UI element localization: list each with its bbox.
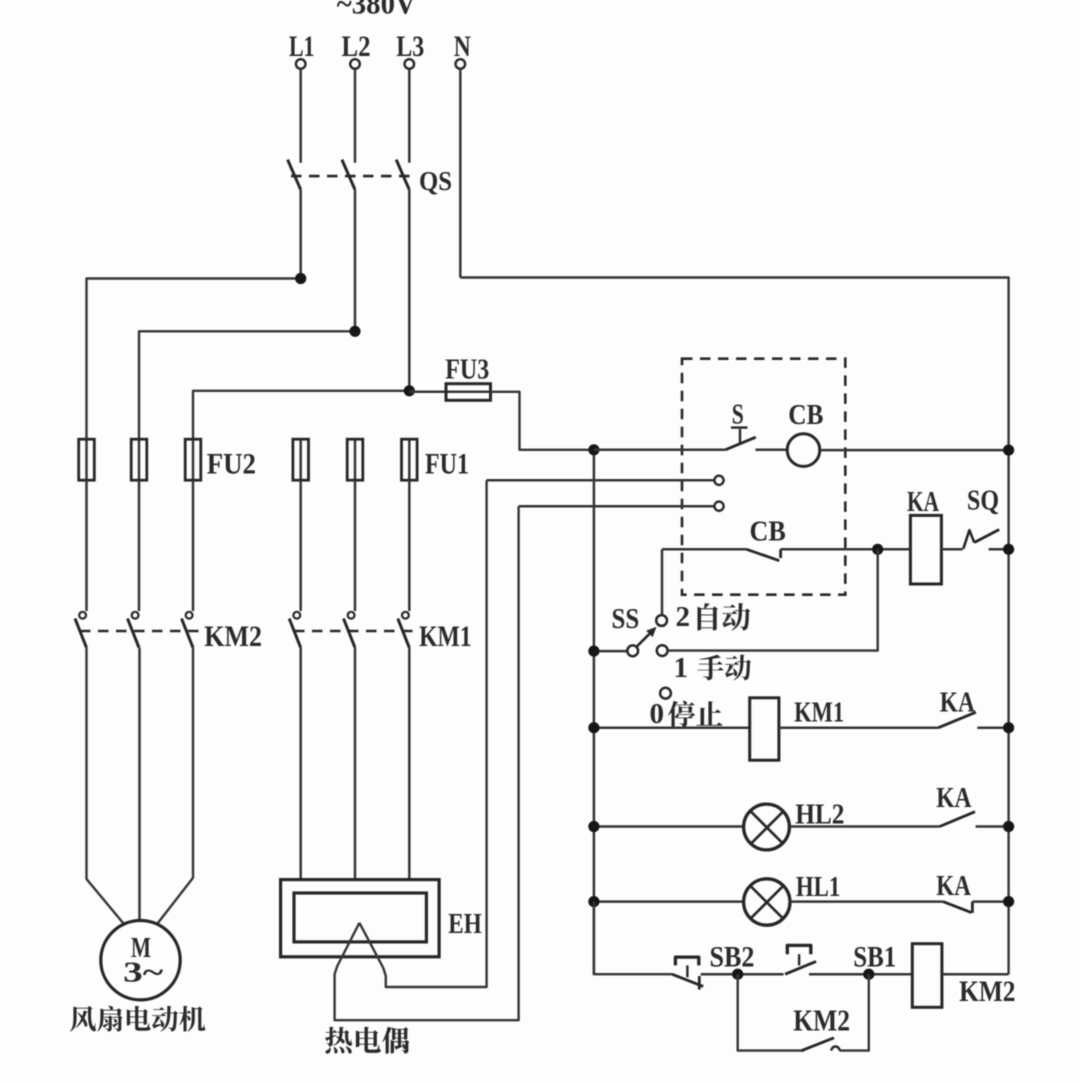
switch QS pole 1 blade [288, 160, 301, 190]
switch QS pole 3 blade [396, 160, 409, 190]
svg-text:SB1: SB1 [853, 941, 896, 974]
svg-text:0: 0 [650, 698, 665, 730]
contact CB blade [747, 549, 780, 560]
wire N to right rail [460, 278, 1008, 975]
svg-text:EH: EH [448, 909, 482, 940]
node selector feed [588, 646, 599, 657]
wire FU2-3 to KM2 [192, 480, 195, 611]
contactor KM1 main contact 1 [293, 612, 300, 619]
wire to fuse FU3 [409, 391, 446, 394]
wire S to CB indicator [756, 449, 788, 452]
node HL1 row right [1003, 896, 1014, 907]
svg-text:S: S [732, 400, 744, 431]
wire KM1 coil to KA contact [779, 726, 939, 729]
wire L3 QS down [408, 190, 411, 391]
wire rail to lamp HL2 [594, 825, 744, 828]
wire KA to SQ [941, 548, 962, 551]
contact KA (NO) KM1 row [938, 712, 976, 728]
contactor KM1 main contact 3 [402, 612, 409, 619]
contactor coil KM1 [750, 698, 779, 760]
fuse FU3 [446, 391, 491, 394]
svg-text:L1: L1 [289, 30, 315, 63]
node junction L2 feeder [349, 326, 360, 337]
wire KM2 coil to right rail [942, 973, 1009, 976]
contactor KM2 main contact 1 [79, 612, 86, 619]
controller input terminal 2 [714, 502, 723, 511]
svg-text:L2: L2 [342, 30, 371, 63]
wire thermocouple input 1 [487, 479, 715, 482]
svg-text:KM2: KM2 [204, 620, 262, 653]
node SB2 out [732, 969, 743, 980]
fuse FU1 pole 2 [354, 439, 357, 480]
wire thermocouple input 2 [519, 505, 715, 508]
contact KM2 blade [802, 1038, 834, 1051]
svg-text:CB: CB [788, 400, 823, 431]
relay coil KA [910, 515, 941, 584]
label thermocouple (Chinese) [325, 1027, 410, 1054]
wire rail bottom to SB2 [594, 902, 672, 975]
node junction L3 feeder [404, 385, 415, 396]
contact CB (NC) wire left [662, 548, 747, 551]
node HL1 row left [588, 896, 599, 907]
svg-text:2: 2 [675, 601, 690, 633]
contactor KM2 main contact 2 [132, 612, 139, 619]
svg-text:FU3: FU3 [445, 355, 489, 386]
node HL2 row right [1003, 821, 1014, 832]
wire FU1-1 to KM1 [299, 480, 302, 611]
contact KA (NC) HL1 row [943, 902, 972, 913]
lamp HL1 [744, 879, 790, 925]
wire L2 drop to QS [354, 69, 357, 163]
wire manual position to join [667, 549, 877, 650]
fuse FU2 pole 1 [85, 439, 88, 480]
wire KM1-1 to EH [299, 648, 302, 880]
wire KM2-1 to motor [87, 648, 124, 924]
node SB1 out [863, 969, 874, 980]
contactor KM1 main contacts linkage (dashed) [294, 630, 413, 633]
node control feed [588, 444, 599, 455]
wire HL1 to KA contact [790, 900, 943, 903]
wire to switch S [594, 449, 725, 452]
node junction L1 feeder [295, 273, 306, 284]
wire KM2-2 to motor [138, 648, 141, 921]
wire CB to right rail [820, 449, 1009, 452]
svg-text:KA: KA [936, 870, 971, 902]
svg-text:SB2: SB2 [710, 941, 755, 974]
svg-text:N: N [454, 30, 471, 63]
selector SS position 1 contact [657, 645, 668, 656]
node manual-auto join [872, 544, 883, 555]
wire FU3 to control rail [491, 392, 594, 450]
heater EH inner box [294, 893, 426, 942]
wire rail to KM1 coil [594, 726, 750, 729]
contact KA (NO) HL2 row [940, 812, 975, 827]
wire FU2-2 to KM2 [138, 480, 141, 611]
svg-text:KM1: KM1 [419, 620, 472, 653]
svg-text:KM2: KM2 [793, 1003, 850, 1038]
temperature controller dashed box [682, 359, 845, 595]
svg-text:~380V: ~380V [337, 0, 416, 21]
label fan motor (Chinese) [70, 1006, 205, 1032]
contactor KM2 main contacts linkage (dashed) [80, 630, 199, 633]
wire KM1-2 to EH [354, 648, 357, 880]
fuse FU1 pole 1 [299, 439, 302, 480]
thermocouple probe left lead [335, 506, 519, 1020]
indicator CB circle [787, 434, 820, 467]
limit switch SQ [963, 530, 974, 549]
node KM1 row left [588, 722, 599, 733]
wire L2 QS down [354, 190, 357, 332]
thermocouple probe right lead [359, 480, 486, 987]
button SB1 (NO start) [785, 961, 816, 974]
fuse FU2 pole 3 [192, 439, 195, 480]
svg-text:KM2: KM2 [959, 975, 1015, 1008]
svg-text:FU2: FU2 [207, 448, 256, 481]
wire FU1-3 to KM1 [408, 480, 411, 611]
wire KM2-3 to motor [158, 648, 194, 924]
wire SB1 to KM2 coil [809, 973, 912, 976]
svg-text:QS: QS [419, 166, 452, 196]
switch S actuator stem [739, 429, 741, 444]
wire N drop [459, 69, 462, 278]
node SQ rail [1003, 544, 1014, 555]
svg-text:SS: SS [612, 603, 640, 635]
contact CB wire right [781, 548, 911, 551]
switch S blade [725, 437, 756, 450]
selector SS position 0 contact [660, 688, 671, 699]
svg-text:HL1: HL1 [796, 872, 840, 903]
svg-text:L3: L3 [396, 30, 424, 63]
wire SB2 to SB1 [701, 973, 784, 976]
contactor KM2 main contact 3 [186, 612, 193, 619]
lamp HL2 [744, 804, 790, 850]
wire auto position riser [661, 549, 664, 615]
wire FU2-1 to KM2 [85, 480, 88, 611]
wire KM1-3 to EH [408, 648, 411, 880]
left control rail [593, 450, 596, 974]
svg-text:3~: 3~ [123, 957, 163, 989]
fuse FU2 pole 2 [138, 439, 141, 480]
wire L1 QS to FU2 feeder [299, 190, 302, 279]
motor M 3-phase fan motor [101, 921, 180, 1000]
wire L3 drop to QS [408, 69, 411, 163]
svg-text:KM1: KM1 [794, 698, 844, 729]
contactor KM1 main contact 2 [348, 612, 355, 619]
svg-text:KA: KA [936, 782, 971, 814]
disconnect switch QS linkage (dashed) [291, 175, 416, 178]
wire L1 drop to QS [299, 69, 302, 163]
fuse FU1 pole 3 [408, 439, 411, 480]
svg-text:KA: KA [940, 687, 975, 719]
svg-text:FU1: FU1 [425, 448, 469, 481]
feeder wire row 2 to left branch [139, 331, 355, 439]
button SB2 (NC stop) [672, 974, 703, 986]
wire HL2 to KA contact [790, 825, 940, 828]
wire rail to lamp HL1 [594, 900, 744, 903]
contactor coil KM2 [912, 944, 942, 1008]
switch QS pole 2 blade [342, 160, 355, 190]
node right rail top [1003, 445, 1014, 456]
feeder wire row 3 to left branch [193, 391, 409, 439]
svg-text:KA: KA [907, 486, 939, 518]
heater EH outer box [281, 880, 440, 957]
controller input terminal 1 [714, 476, 723, 485]
wire KM2 contact to SB1 node [840, 974, 869, 1050]
selector SS blade arrow [636, 634, 650, 648]
contact KM2 auxiliary self-hold branch [738, 974, 804, 1050]
node KM1 row right [1003, 722, 1014, 733]
selector SS pivot [594, 650, 627, 653]
selector SS position 2 contact [656, 615, 667, 626]
svg-text:1: 1 [674, 652, 689, 684]
wire FU1-2 to KM1 [354, 480, 357, 611]
node HL2 row left [588, 821, 599, 832]
feeder wire row 1 to left branch [87, 279, 301, 440]
svg-text:CB: CB [750, 517, 786, 548]
svg-text:SQ: SQ [967, 485, 999, 517]
